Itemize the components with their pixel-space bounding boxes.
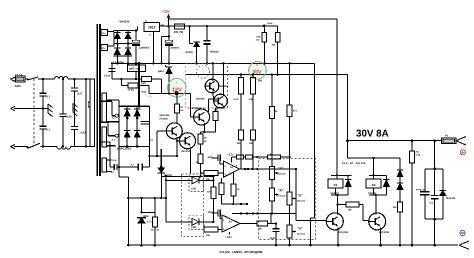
wire K1 to Q6	[337, 195, 339, 215]
transistor Q5 2SC1043	[180, 133, 196, 153]
wire B1 out to 7812	[137, 26, 139, 30]
svg-text:5W: 5W	[258, 80, 262, 83]
svg-text:10k: 10k	[393, 206, 398, 209]
power +12v arrow	[162, 10, 170, 27]
bridge B2 minus drop	[118, 147, 120, 168]
capacitor 4.7 across	[110, 156, 149, 174]
rail 30V output	[346, 139, 441, 142]
node L1	[42, 78, 44, 80]
svg-text:A2: A2	[229, 221, 233, 224]
regulator U3 7812	[144, 20, 164, 32]
wire cap node down	[148, 147, 177, 168]
wire H158	[348, 157, 401, 159]
svg-text:"U": "U"	[298, 194, 304, 198]
svg-text:Д814: Д814	[158, 70, 164, 73]
resistor 2k col	[269, 74, 278, 167]
regulator ground pin	[149, 32, 154, 65]
wire V347	[347, 75, 349, 141]
svg-text:1/50v: 1/50v	[270, 237, 276, 240]
diode 1N4002 dn	[158, 168, 173, 177]
capacitor 400/25w	[204, 26, 219, 63]
bus H176	[160, 176, 213, 199]
bridge B1 diode D3	[114, 44, 120, 56]
AC neutral input terminal N	[10, 145, 27, 149]
label K2 diode	[368, 192, 377, 195]
wire cap bank to rail	[434, 219, 436, 245]
svg-text:K1,2 - DC - 12v 10A: K1,2 - DC - 12v 10A	[342, 162, 366, 165]
cap 100p IC1	[207, 154, 223, 164]
svg-text:0.1: 0.1	[46, 95, 50, 99]
opamp IC2	[222, 215, 240, 232]
bridge B1 mid bus	[113, 43, 131, 45]
svg-text:+12v: +12v	[225, 235, 232, 239]
diode K1 1N4002	[345, 175, 351, 195]
IC1 +12v	[227, 153, 234, 163]
resistor 10k base link	[337, 202, 369, 221]
svg-text:IC1,IC2 - LM293 - КР140УД20В: IC1,IC2 - LM293 - КР140УД20В	[220, 250, 264, 254]
res feedback IC1 b	[231, 172, 240, 204]
cap 100p IC2	[207, 210, 222, 219]
wire q4 emitter	[176, 137, 180, 157]
capacitor 0.22	[71, 126, 86, 147]
zener D814	[158, 62, 172, 93]
resistor 10 5w	[121, 79, 149, 94]
bridge B1 bottom bus	[113, 55, 131, 57]
svg-text:2,2k: 2,2k	[416, 154, 421, 157]
label 0.68 a	[141, 82, 146, 85]
svg-text:2,2Mf/25w: 2,2Mf/25w	[139, 47, 150, 50]
svg-text:0,22: 0,22	[81, 131, 87, 134]
wire ic1 out to base col	[295, 168, 297, 221]
resistor 10k prot	[393, 202, 403, 246]
svg-text:12V: 12V	[172, 87, 182, 93]
wire Q1-Q2 link	[212, 91, 215, 101]
wire pot feed	[232, 153, 291, 160]
bridge B1 diode D4	[125, 44, 131, 56]
LED1	[166, 177, 215, 191]
capacitor 0.1 lower	[40, 109, 51, 147]
wire w2 to B1	[108, 45, 114, 47]
protection diode chain	[397, 158, 403, 202]
svg-text:0,44: 0,44	[234, 98, 239, 101]
bus control ground	[232, 212, 296, 214]
res vert 10k mid	[207, 175, 216, 223]
wire q3 collector	[209, 99, 217, 112]
res input IC1	[200, 170, 223, 181]
resistor 430 7W	[174, 24, 185, 34]
bridge B1 top bus	[113, 30, 137, 32]
svg-text:[папсе]: [папсе]	[297, 200, 305, 203]
plus symbol	[460, 150, 465, 155]
resistor 470 col	[287, 62, 297, 192]
pot U fine	[287, 225, 305, 238]
node 12v zone	[168, 92, 170, 94]
rail top H1	[169, 18, 338, 20]
wire y93	[149, 91, 194, 117]
svg-text:БЛ405: БЛ405	[186, 51, 194, 54]
bottom rail 0V	[127, 244, 458, 247]
bridge B2 right stubs	[140, 122, 153, 142]
wire Q1 collector	[212, 62, 214, 81]
transistor Q2 2N3055	[196, 94, 227, 108]
relay K1	[328, 175, 343, 188]
svg-text:10 5w: 10 5w	[128, 89, 135, 92]
transistor Q6 2SC1008	[326, 213, 348, 234]
wire V337	[336, 19, 338, 175]
output minus terminal	[459, 241, 469, 249]
svg-text:2N3055: 2N3055	[220, 85, 229, 88]
green circle 30V	[249, 62, 267, 80]
svg-text:30V 8A: 30V 8A	[356, 129, 389, 140]
capacitor 0.1 upper	[40, 79, 51, 108]
diode K2 1N4002	[383, 175, 389, 195]
transistor Q4 2SC1046	[160, 114, 183, 139]
node H3 x209	[206, 62, 208, 64]
wire pot u links	[289, 205, 291, 225]
svg-text:[папсе]: [папсе]	[278, 173, 286, 176]
svg-text:[точно]: [точно]	[297, 233, 305, 236]
zener D808	[137, 218, 152, 247]
wire w1 to B1	[108, 32, 114, 47]
svg-text:+12v: +12v	[162, 10, 170, 14]
transformer secondary winding w5	[102, 158, 112, 172]
node 12v arrow	[167, 25, 169, 27]
relay K2	[366, 175, 381, 188]
svg-text:Т6А100К: Т6А100К	[445, 197, 456, 200]
box MLT2 label	[113, 61, 146, 79]
svg-text:K2: K2	[372, 183, 376, 187]
K2 bottom bus	[369, 188, 386, 196]
svg-text:A1: A1	[230, 166, 234, 169]
res input3 IC2	[204, 225, 223, 238]
resistor 10k drop	[264, 26, 280, 76]
label 30V 8A	[356, 129, 389, 140]
resistor 10 1w	[174, 94, 183, 124]
svg-text:▲: ▲	[150, 95, 152, 98]
svg-text:7812: 7812	[148, 26, 156, 30]
transformer T1 primary winding	[88, 79, 94, 146]
svg-text:КТ805М: КТ805М	[192, 107, 201, 110]
LED1 dashed box	[189, 174, 204, 192]
svg-text:LED: LED	[191, 188, 196, 191]
svg-text:4700x1w: 4700x1w	[416, 188, 426, 191]
transformer secondary winding w3 main	[102, 93, 119, 122]
node L2	[73, 78, 75, 80]
label K1 diode	[330, 192, 339, 195]
power switch S1b	[27, 143, 41, 148]
svg-text:430 7W: 430 7W	[174, 30, 184, 34]
diode T6A100K	[439, 190, 456, 200]
minus symbol	[460, 230, 465, 235]
resistor 10k 1w drop	[256, 26, 266, 65]
resistor shunt Ra	[239, 74, 244, 131]
filter inductor L2	[57, 147, 71, 150]
fuse F1 T3.5A	[15, 73, 26, 88]
resistor Ra y79	[141, 77, 161, 94]
AC line input terminal L	[10, 77, 15, 81]
label 0.44	[234, 98, 239, 101]
svg-text:T3.5A: T3.5A	[15, 73, 23, 77]
resistor shunt Rb	[251, 74, 256, 131]
resistor Rb2	[249, 130, 256, 169]
svg-text:10k: 10k	[348, 209, 353, 212]
svg-text:1w: 1w	[150, 228, 153, 231]
bridge B2 ac terminal 2	[112, 134, 119, 142]
LED outer dashed	[182, 174, 204, 237]
wire coil2 to transformer	[71, 146, 91, 148]
svg-text:КТ8150: КТ8150	[160, 118, 169, 121]
node E	[42, 107, 44, 109]
label K12	[342, 162, 366, 165]
emitter bus thick	[160, 149, 163, 168]
bridge B2 diode D8	[134, 131, 140, 148]
pot A fine	[270, 188, 286, 201]
svg-text:1w: 1w	[256, 39, 259, 42]
svg-text:2N3055: 2N3055	[196, 98, 205, 101]
capacitor 4700x1w	[416, 188, 430, 195]
wire minus to bottom rail	[119, 167, 128, 245]
wire Q2 collector	[222, 62, 224, 96]
transformer secondary winding w2	[101, 45, 108, 51]
diode dots row	[165, 175, 167, 222]
resistor 1w 10 stack	[195, 132, 207, 178]
LED2 dashed box	[189, 215, 204, 229]
svg-text:0,27: 0,27	[77, 93, 83, 96]
dashed transistor outline	[197, 65, 210, 78]
svg-text:+12v: +12v	[227, 153, 234, 157]
transistor Q1 2N3055	[205, 79, 228, 93]
svg-text:0,88: 0,88	[249, 98, 254, 101]
filter inductor L1	[55, 77, 69, 80]
wire 7812 output line H2	[160, 25, 266, 28]
svg-text:2,2w: 2,2w	[267, 22, 272, 25]
wire column x86	[85, 78, 87, 148]
K2 top bus	[369, 174, 386, 176]
svg-text:"A": "A"	[278, 167, 284, 171]
label 1N4032	[119, 20, 130, 24]
wire cap bank feed	[434, 141, 436, 169]
output plus terminal	[456, 137, 466, 146]
AC earth input terminal	[10, 106, 43, 110]
wire H204	[222, 203, 249, 205]
svg-text:*1N4032: *1N4032	[119, 20, 130, 24]
svg-text:4,7v: 4,7v	[147, 221, 152, 224]
svg-text:1w: 1w	[180, 109, 183, 112]
pot A coarse	[270, 167, 286, 180]
bridge B2 diode D7	[124, 131, 130, 148]
label 0.88	[249, 98, 254, 101]
svg-text:0,35: 0,35	[67, 116, 73, 119]
svg-text:400/25w: 400/25w	[210, 50, 219, 53]
node N1	[42, 145, 44, 147]
svg-text:2SC1008: 2SC1008	[338, 231, 349, 234]
label KBPC3510	[117, 147, 131, 151]
wire pot a2 down	[271, 201, 273, 215]
svg-text:4,7mf: 4,7mf	[104, 75, 110, 78]
cap bank frame	[425, 168, 443, 221]
resistor 100 q	[213, 106, 223, 132]
bridge B2 diode D6	[134, 106, 140, 130]
wire inductor to transformer	[68, 78, 90, 80]
svg-text:LED: LED	[191, 226, 196, 229]
pots dashed box	[259, 159, 316, 240]
capacitor 4.7mf	[104, 62, 116, 77]
green circle 12V	[168, 79, 187, 98]
IC1 output row	[240, 168, 296, 170]
resistor 2w 2.2k	[410, 141, 421, 246]
red mark	[150, 95, 152, 98]
svg-text:0,68: 0,68	[141, 82, 146, 85]
bridge B2 ac terminal 1	[112, 114, 119, 119]
svg-text:"U": "U"	[298, 227, 304, 231]
K1 bottom bus	[331, 188, 348, 196]
svg-text:"A": "A"	[278, 189, 284, 193]
wire q5 emitter	[189, 147, 191, 174]
wire w3 stub2	[101, 122, 115, 136]
chassis ground	[43, 104, 53, 117]
resistor Ra2	[237, 130, 244, 169]
wire Q6 base	[296, 220, 326, 222]
wire pot a link	[271, 180, 273, 189]
svg-text:1w: 1w	[204, 137, 207, 140]
cap 1/50v pot	[270, 214, 280, 247]
LED2	[166, 218, 213, 228]
capacitor 220/25w	[160, 26, 179, 64]
bridge B1 diode D2	[125, 31, 131, 44]
wire y79	[112, 63, 141, 80]
bridge B1 diode D1	[114, 31, 120, 44]
wire Q7 collector	[376, 215, 381, 216]
wire V314	[314, 63, 316, 218]
capacitor 2200/25v	[132, 30, 150, 65]
IC2 +12v	[225, 232, 232, 239]
switch gang dashed link	[33, 79, 35, 146]
wire switch to node	[38, 78, 55, 80]
capacitor 0.33	[60, 78, 73, 148]
bus H3 +30V unregulated	[112, 56, 315, 65]
wire Q7 emitter	[379, 227, 382, 246]
wire K2 to Q7	[375, 195, 377, 215]
wire H2 junctions	[188, 25, 208, 27]
node H3 x196	[195, 62, 197, 64]
transformer T1 core	[96, 24, 101, 176]
wire switch2 to coil2	[41, 146, 58, 148]
zener D808 drop	[140, 198, 155, 218]
svg-text:220/25w: 220/25w	[170, 47, 179, 50]
caption ICs	[220, 250, 264, 254]
transformer secondary winding w4	[102, 127, 116, 147]
chassis ground 2	[73, 104, 78, 127]
res feedback IC1 a	[219, 178, 224, 204]
capacitor 0.27	[71, 79, 83, 107]
opamp IC1	[223, 161, 239, 177]
svg-text:K1: K1	[334, 183, 338, 187]
res 8k	[257, 221, 276, 231]
wire q4 base	[156, 131, 166, 157]
wire w3 stub1	[101, 101, 115, 115]
transformer secondary winding w1	[101, 30, 108, 36]
K1 top bus	[331, 174, 351, 176]
dashed heatsink box	[186, 64, 228, 108]
bus H198	[127, 197, 166, 199]
capacitor 0.1 out	[430, 169, 439, 219]
bus H4	[186, 74, 348, 76]
label 0.68 b	[141, 91, 146, 94]
pot U coarse	[287, 192, 305, 205]
wire q3 emitter link	[200, 123, 215, 133]
wire Q6 emitter	[337, 227, 340, 246]
wire fuse to switch	[25, 78, 27, 80]
bridge B2 plus output riser	[138, 62, 141, 107]
bridge B2 diode D5	[124, 106, 130, 130]
bridge B2 frame	[119, 106, 149, 146]
res 1w 1k	[150, 198, 159, 247]
label 5W	[258, 80, 262, 83]
transistor Q3 KT805	[192, 107, 210, 125]
wire pot u2 down	[288, 218, 314, 246]
svg-text:0.1: 0.1	[46, 128, 50, 132]
wire w3 stub3	[101, 142, 118, 162]
power switch S1a	[27, 77, 38, 80]
K2 feed	[373, 158, 375, 175]
svg-text:0,68: 0,68	[141, 91, 146, 94]
transistor Q7 2SC1008	[369, 213, 390, 234]
IC2 output row	[240, 223, 257, 225]
resistor 2.2w inline	[267, 22, 272, 25]
svg-text:240V: 240V	[15, 84, 22, 88]
fuse F2	[442, 135, 457, 144]
svg-text:[точно]: [точно]	[278, 195, 286, 198]
wire rail drop x348	[347, 141, 349, 158]
diode BL405	[186, 26, 200, 63]
